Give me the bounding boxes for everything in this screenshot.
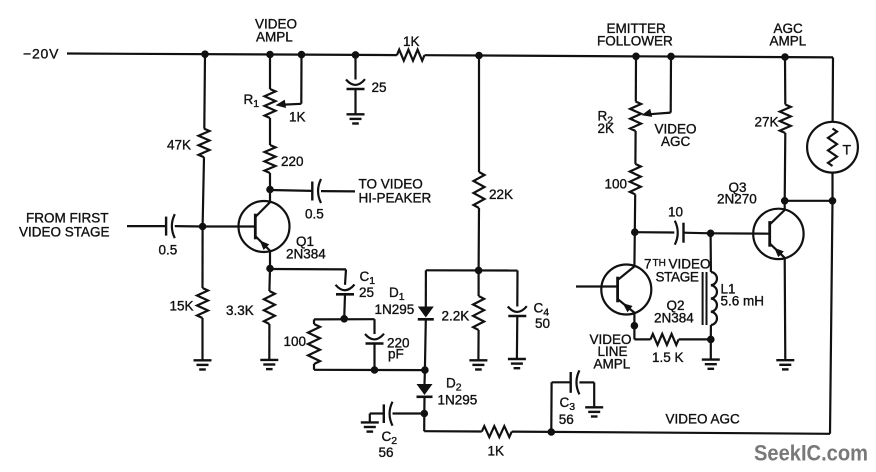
svg-text:C: C — [360, 269, 370, 284]
label 220 pF — [387, 336, 410, 362]
wire right AGC feedback line — [830, 201, 833, 434]
ground (2.2K) — [469, 360, 487, 369]
svg-text:2N384: 2N384 — [286, 246, 326, 261]
wire Q2 node to cap 10 — [635, 231, 675, 234]
wiper arrow into R2 — [642, 109, 653, 117]
label 100 (emitter follower) — [605, 177, 628, 192]
label 1K (R1) — [289, 110, 306, 125]
resistor 3.3K — [264, 291, 275, 324]
svg-text:D: D — [389, 285, 399, 300]
wire input to coupling cap — [127, 225, 166, 227]
wire C2 ground lead — [370, 414, 384, 423]
label 56 (C2) — [379, 445, 394, 460]
wire 100/220pF top bus — [314, 318, 375, 320]
resistor 100 (emitter follower) — [630, 164, 641, 195]
wire top -20V supply rail — [67, 54, 833, 58]
wire Q1 emitter — [267, 251, 274, 272]
wire collector node to thermistor line — [785, 198, 836, 205]
ground (3.3K) — [260, 360, 278, 369]
svg-text:1.5 K: 1.5 K — [652, 350, 684, 365]
ground (25 cap) — [347, 114, 365, 123]
ground (15K) — [194, 360, 212, 369]
label Q3 2N270 — [717, 180, 757, 206]
wire 27K to Q3 collector node — [781, 133, 788, 204]
wire rail to R1 — [269, 55, 271, 90]
capacitor 0.5 to video hi-peaker — [312, 179, 321, 203]
transistor Q1 — [239, 201, 290, 252]
wire 220 to collector node — [269, 173, 271, 190]
label VIDEO AMPL stage — [255, 17, 297, 45]
svg-text:AMPL: AMPL — [594, 356, 631, 371]
capacitor 25 (rail bypass) — [346, 79, 365, 89]
capacitor C4 50 — [508, 306, 527, 316]
resistor 15K — [197, 288, 208, 318]
label 220 — [281, 154, 304, 169]
svg-text:pF: pF — [388, 347, 404, 362]
resistor 2.2K — [473, 296, 484, 330]
label Q1 2N384 — [286, 234, 326, 261]
resistor 1K (top rail) — [397, 50, 425, 61]
capacitor C3 56 — [571, 370, 580, 394]
wire bottom video AGC bus — [424, 429, 830, 436]
label C3 — [560, 395, 576, 413]
wire L1 node to ground — [710, 339, 712, 359]
label 2.2K — [442, 309, 470, 324]
label -20V supply — [23, 46, 59, 62]
svg-text:STAGE: STAGE — [656, 270, 699, 285]
svg-text:22K: 22K — [489, 187, 513, 202]
wire thermistor to collector node line — [831, 173, 833, 201]
svg-text:TH: TH — [653, 258, 666, 269]
svg-text:TO VIDEO: TO VIDEO — [359, 177, 423, 192]
wire bottom bus to D2 — [423, 370, 426, 384]
svg-text:10: 10 — [668, 205, 683, 220]
wire 25 cap to ground — [354, 89, 356, 114]
svg-text:2N384: 2N384 — [654, 310, 694, 325]
svg-text:0.5: 0.5 — [305, 207, 324, 222]
label 7TH VIDEO STAGE — [644, 257, 711, 285]
thermistor T — [807, 122, 858, 173]
wire 3.3K to ground — [268, 324, 270, 360]
svg-text:−20V: −20V — [23, 46, 59, 62]
capacitor C2 56 — [384, 402, 393, 426]
wire 220pF to bottom bus — [373, 343, 375, 370]
label 10 — [668, 205, 683, 220]
svg-text:1N295: 1N295 — [375, 302, 415, 317]
label 1K (top rail) — [403, 34, 420, 49]
label 1.5 K — [652, 350, 684, 365]
wire Q3 base node to L1 — [709, 233, 712, 272]
svg-text:AGC: AGC — [661, 134, 691, 149]
label L1 — [721, 281, 736, 296]
label C2 — [382, 429, 398, 447]
svg-text:VIDEO AGC: VIDEO AGC — [666, 412, 741, 427]
label 1K (AGC bus) — [488, 444, 505, 459]
svg-text:C: C — [382, 429, 392, 444]
capacitor 0.5 input coupling — [166, 214, 175, 238]
wire rail to 25 cap — [354, 55, 356, 80]
wiper arrow into R1 — [276, 100, 286, 108]
wire R2 wiper feed — [650, 56, 671, 114]
wire Q2 emitter lead — [631, 313, 638, 329]
svg-text:1K: 1K — [403, 34, 420, 49]
wire 0.5 cap to hi-peaker stub — [321, 190, 355, 192]
wire R1 wiper feed — [284, 55, 302, 105]
wire L1 to 1.5K node — [710, 325, 712, 339]
wire C2 node to AGC bus corner — [423, 414, 425, 432]
svg-text:2K: 2K — [598, 121, 615, 136]
label 0.5 (hi-peaker cap) — [305, 207, 324, 222]
svg-text:25: 25 — [372, 80, 387, 95]
ground (C2) — [361, 422, 379, 431]
label TO VIDEO HI-PEAKER — [359, 177, 432, 206]
wire C2 to node — [393, 412, 425, 414]
wire bottom bus — [314, 367, 428, 374]
wire input cap to base node — [175, 225, 203, 228]
resistor 1K (AGC bus) — [482, 426, 512, 437]
resistor 22K — [474, 172, 485, 208]
label C1 — [360, 269, 376, 287]
svg-text:100: 100 — [605, 177, 628, 192]
label 22K — [489, 187, 513, 202]
label 0.5 (input cap) — [159, 243, 178, 258]
ground (Q3 emitter) — [776, 360, 794, 369]
svg-text:100: 100 — [284, 334, 307, 349]
label Q2 2N384 — [654, 298, 694, 325]
label C4 — [534, 301, 550, 319]
svg-text:50: 50 — [535, 316, 550, 331]
wire top bus to 220pF — [373, 319, 375, 334]
node junction dots on top rail — [202, 51, 789, 60]
label 3.3K — [226, 303, 254, 318]
wire Q2 base stub — [576, 285, 618, 287]
wire detector node line — [426, 267, 518, 274]
svg-text:C: C — [560, 395, 570, 410]
wire Q2 emitter to 1.5K — [634, 326, 650, 340]
wire 22K to detector node — [478, 208, 481, 270]
ground (C4) — [508, 359, 526, 368]
wire Q2 collector lead — [633, 232, 636, 266]
svg-text:HI-PEAKER: HI-PEAKER — [359, 191, 432, 206]
wire 1.5K to L1 node — [679, 336, 715, 343]
svg-text:AMPL: AMPL — [770, 34, 807, 49]
label 1N295 (D2) — [438, 393, 478, 408]
svg-text:1: 1 — [253, 98, 259, 110]
wire Q3 collector lead — [784, 201, 786, 210]
wire C4 to ground — [516, 316, 519, 359]
label 25 (C1) — [359, 285, 374, 300]
wire R1 to 220 — [269, 118, 271, 145]
capacitor 220pF — [365, 334, 384, 344]
potentiometer R1 1K — [265, 89, 276, 118]
svg-text:VIDEO STAGE: VIDEO STAGE — [19, 224, 110, 239]
label 50 (C4) — [535, 316, 550, 331]
wire rail to 22K — [478, 56, 480, 173]
svg-text:25: 25 — [359, 285, 374, 300]
wire 100 to Q2 collector node — [632, 194, 639, 235]
svg-text:1K: 1K — [488, 444, 505, 459]
label 15K — [170, 299, 194, 314]
svg-text:FOLLOWER: FOLLOWER — [597, 34, 673, 49]
label 25 (rail bypass) — [372, 80, 387, 95]
wire Q1 collector — [267, 186, 274, 202]
wire rail to 47K — [203, 54, 206, 128]
svg-text:47K: 47K — [167, 138, 191, 153]
label FROM FIRST VIDEO STAGE — [19, 210, 110, 239]
svg-text:FROM FIRST: FROM FIRST — [26, 210, 109, 225]
wire base node to 15K — [201, 227, 203, 289]
wire Q1 emitter to C1 — [270, 269, 346, 285]
wire 47K to base node — [203, 157, 204, 226]
wire top bus to 100 — [313, 319, 315, 324]
label 5.6 mH — [721, 293, 765, 308]
transistor Q3 — [753, 209, 803, 259]
label AGC AMPL stage — [770, 21, 807, 49]
svg-text:D: D — [446, 376, 456, 391]
label 56 (C3) — [559, 412, 574, 427]
resistor 1.5K — [651, 334, 679, 345]
svg-text:SeekIC.com: SeekIC.com — [754, 441, 868, 466]
wire C1 to 100/220pF bus — [341, 294, 348, 322]
wire cap 10 to Q3 base node — [684, 230, 714, 237]
label 1N295 (D1) — [375, 302, 415, 317]
capacitor C1 25 — [336, 285, 355, 295]
watermark SeekIC.com — [754, 441, 868, 466]
svg-text:C: C — [534, 301, 544, 316]
resistor 27K — [780, 105, 791, 134]
inductor L1 5.6mH — [703, 272, 717, 325]
svg-text:56: 56 — [379, 445, 394, 460]
resistor 220 — [265, 145, 276, 173]
label VIDEO AGC (R2 wiper) — [655, 122, 697, 150]
transistor Q2 — [601, 265, 651, 315]
potentiometer R2 2K — [630, 102, 641, 132]
wire rail to R2 — [635, 56, 637, 101]
wire Q1 emitter to 3.3K — [268, 269, 271, 292]
ground (C3) — [585, 407, 603, 416]
label 47K — [167, 138, 191, 153]
diode D1 1N295 — [418, 307, 434, 320]
svg-text:5.6 mH: 5.6 mH — [721, 293, 765, 308]
wire D2 to C2 node — [421, 397, 428, 417]
wire C4 top lead — [516, 271, 518, 307]
label 100 (Q1 emitter) — [284, 334, 307, 349]
wire Q3 base node to Q3 — [711, 232, 770, 235]
label R2 2K — [598, 109, 615, 137]
resistor 100 (Q1 emitter) — [308, 324, 320, 364]
wire 100 to bottom bus — [313, 364, 315, 370]
label D1 — [389, 285, 405, 303]
svg-text:15K: 15K — [170, 299, 194, 314]
wire rail to 27K — [784, 57, 786, 105]
capacitor 10 coupling — [675, 221, 684, 245]
svg-text:3.3K: 3.3K — [226, 303, 254, 318]
wire 2.2K to ground — [477, 330, 479, 360]
svg-text:7: 7 — [644, 257, 652, 272]
resistor 47K — [199, 129, 210, 158]
svg-text:27K: 27K — [755, 115, 779, 130]
wire 2.2K top — [478, 270, 480, 296]
svg-text:AMPL: AMPL — [256, 30, 293, 45]
wire R2 to 100 — [634, 131, 636, 164]
wire C3 to ground lead — [579, 382, 594, 407]
svg-text:1N295: 1N295 — [438, 393, 478, 408]
label D2 — [446, 376, 462, 394]
label 27K — [755, 115, 779, 130]
svg-text:56: 56 — [559, 412, 574, 427]
wire base node to Q1 base — [203, 225, 256, 227]
wire collector node to 0.5 cap — [270, 189, 312, 192]
label R1 — [244, 92, 260, 110]
svg-text:T: T — [843, 142, 852, 158]
wire D1 to bottom bus — [424, 320, 427, 370]
label EMITTER FOLLOWER stage — [597, 21, 673, 49]
label VIDEO AGC net — [666, 412, 741, 427]
wire Q3 emitter to ground — [784, 258, 787, 360]
wire rail corner to thermistor — [831, 57, 834, 121]
wire D1 top lead — [425, 270, 427, 306]
wire AGC bus to C3 — [551, 382, 570, 432]
svg-text:220: 220 — [281, 154, 304, 169]
label VIDEO LINE AMPL — [590, 332, 632, 371]
svg-text:2N270: 2N270 — [717, 191, 757, 206]
diode D2 1N295 — [417, 384, 433, 397]
svg-text:2.2K: 2.2K — [442, 309, 470, 324]
node Q1 base junction — [199, 223, 206, 230]
svg-text:1K: 1K — [289, 110, 306, 125]
ground (1.5K / L1) — [702, 360, 720, 369]
svg-text:0.5: 0.5 — [159, 243, 178, 258]
wire 15K to ground — [201, 318, 203, 360]
svg-text:R: R — [244, 92, 254, 107]
